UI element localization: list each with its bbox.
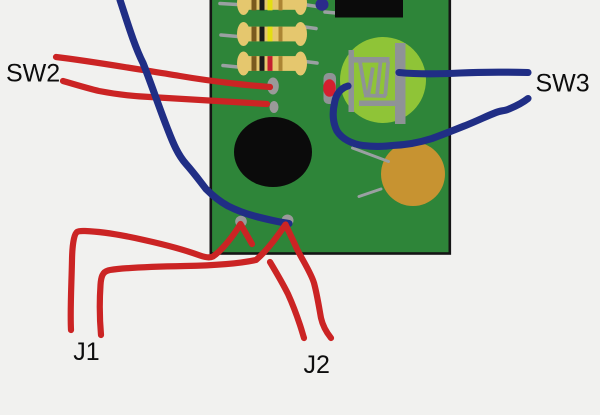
svg-text:J2: J2	[304, 351, 330, 379]
svg-text:J1: J1	[73, 338, 99, 366]
svg-text:SW2: SW2	[6, 60, 60, 88]
svg-text:SW3: SW3	[536, 70, 590, 98]
